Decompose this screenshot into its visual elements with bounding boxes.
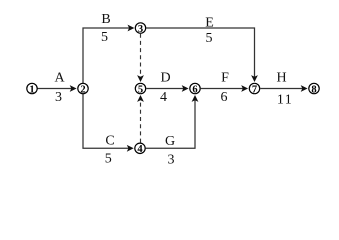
- svg-text:F: F: [221, 71, 229, 86]
- svg-text:B: B: [101, 12, 110, 27]
- svg-text:E: E: [205, 16, 214, 31]
- node 5: [135, 83, 145, 93]
- node 8: [309, 83, 319, 93]
- wire A: node 1 to node 2: [38, 88, 72, 90]
- svg-text:4: 4: [137, 144, 143, 155]
- svg-text:8: 8: [311, 84, 316, 95]
- dashed dummy: node 3 down to node 5: [140, 34, 142, 78]
- svg-text:5: 5: [105, 152, 112, 167]
- svg-text:D: D: [160, 71, 170, 86]
- svg-text:G: G: [165, 134, 175, 149]
- svg-text:7: 7: [252, 84, 257, 95]
- dashed dummy: node 4 up to node 5: [140, 100, 142, 143]
- svg-text:5: 5: [138, 84, 143, 95]
- wire D: node 5 to node 6: [146, 88, 184, 90]
- svg-text:11: 11: [277, 93, 293, 108]
- wire E: node 3 right and down to node 7: [146, 28, 254, 78]
- node 6: [190, 83, 200, 93]
- svg-text:5: 5: [101, 30, 108, 45]
- svg-text:H: H: [276, 71, 286, 86]
- wire F: node 6 to node 7: [201, 88, 243, 90]
- svg-text:5: 5: [206, 31, 213, 46]
- svg-text:C: C: [105, 134, 114, 149]
- node 3: [135, 23, 145, 33]
- svg-text:A: A: [54, 71, 65, 86]
- svg-text:3: 3: [138, 24, 143, 35]
- node 4: [135, 143, 145, 153]
- node 7: [249, 83, 259, 93]
- svg-text:6: 6: [192, 84, 197, 95]
- svg-text:2: 2: [80, 84, 85, 95]
- wire G: node 4 right and up to node 6: [146, 100, 195, 149]
- svg-text:3: 3: [55, 90, 62, 105]
- wire C: node 2 down and right to node 4: [83, 94, 129, 149]
- node 2: [78, 83, 88, 93]
- svg-text:4: 4: [160, 90, 167, 105]
- svg-text:1: 1: [29, 84, 34, 95]
- wire B: node 2 up and right to node 3: [83, 28, 130, 83]
- svg-text:3: 3: [168, 153, 175, 168]
- svg-text:6: 6: [221, 90, 228, 105]
- wire H: node 7 to node 8: [260, 88, 302, 90]
- node 1: [27, 83, 37, 93]
